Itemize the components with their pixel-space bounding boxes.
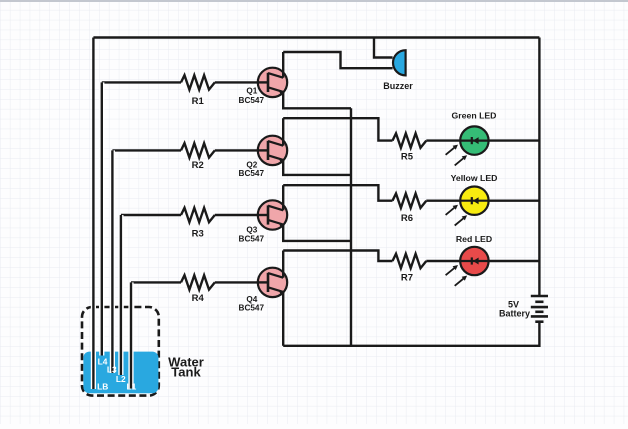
light arrows Green LED [446,145,468,166]
wire sense drop from row Q4 into tank [128,282,133,388]
transistor Q3 [257,200,287,229]
wire left rail (LB sense wire) [92,38,94,390]
svg-text:R6: R6 [401,213,413,224]
wire LB drop into tank [91,300,96,389]
svg-text:R1: R1 [192,96,205,107]
wire collector Q3 [282,185,284,210]
svg-text:Green LED: Green LED [452,110,497,120]
wire emitter Q1 [283,92,351,108]
buzzer [393,50,406,75]
wire top rail [93,36,539,38]
LED Red LED [426,247,539,275]
svg-text:BC547: BC547 [239,235,265,244]
svg-text:Q3: Q3 [246,226,257,235]
wire LED to right rail [474,199,539,201]
svg-text:Battery: Battery [499,309,530,319]
svg-text:BC547: BC547 [239,169,265,178]
water tank dashed boundary [82,307,159,396]
wire emitter Q4 [282,292,284,346]
wire R6 to LED [426,199,474,201]
wire Q2 collector to R5 [283,118,392,140]
svg-text:Buzzer: Buzzer [383,81,413,91]
wire buzzer feed from top rail [374,38,393,58]
wire base row Q3 [121,214,181,216]
wire Q3 collector to R6 [283,185,392,201]
wire emitter Q3 [283,225,351,241]
LED Green LED [426,126,539,154]
svg-text:Red LED: Red LED [456,234,492,244]
wire R7 to LED [426,260,474,262]
wire LED to right rail [474,139,539,141]
svg-text:R3: R3 [192,229,204,240]
transistor Q4 [257,268,287,297]
wire Q1 collector to buzzer [283,52,392,68]
wire battery negative to bottom rail [283,322,539,346]
LED Yellow LED [426,187,539,215]
svg-text:Q1: Q1 [246,87,257,96]
resistor R7 [393,254,427,268]
wire Q4 collector to R7 [283,251,392,262]
transistor Q2 [257,136,287,165]
wire base row Q4 [131,281,181,283]
svg-text:L1: L1 [127,381,137,391]
resistor R1 [181,75,215,89]
wire sense drop from row Q3 into tank [118,215,123,375]
resistor R3 [181,208,215,222]
resistor R5 [393,133,427,147]
wire sense drop from row Q2 into tank [110,150,115,373]
svg-text:R4: R4 [192,293,205,304]
transistor Q1 [257,68,287,97]
svg-text:R5: R5 [401,151,414,162]
svg-text:L2: L2 [116,374,126,384]
resistor R2 [181,143,215,157]
svg-text:R2: R2 [192,160,204,171]
wire collector Q4 [282,251,284,278]
wire right rail [538,38,540,297]
wire collector Q2 [282,118,284,146]
resistor R4 [181,275,215,289]
wire base row Q1 [102,81,181,83]
svg-text:BC547: BC547 [239,304,265,313]
wire emitter bus [350,108,352,345]
wire LED to right rail [474,260,539,262]
battery B1 5V [531,296,548,322]
light arrows Red LED [446,265,468,286]
svg-text:LB: LB [97,381,108,391]
svg-text:Yellow LED: Yellow LED [451,173,498,183]
svg-text:R7: R7 [401,273,413,284]
wire collector Q1 [282,52,284,78]
resistor R6 [393,194,427,208]
wire emitter Q2 [283,160,351,175]
wire R5 to LED [426,139,474,141]
water tank [83,352,158,394]
light arrows Yellow LED [446,205,468,226]
wire base row Q2 [112,149,181,151]
svg-text:BC547: BC547 [239,96,265,105]
wire sense drop from row Q1 into tank [99,82,104,355]
svg-text:Tank: Tank [171,365,201,380]
